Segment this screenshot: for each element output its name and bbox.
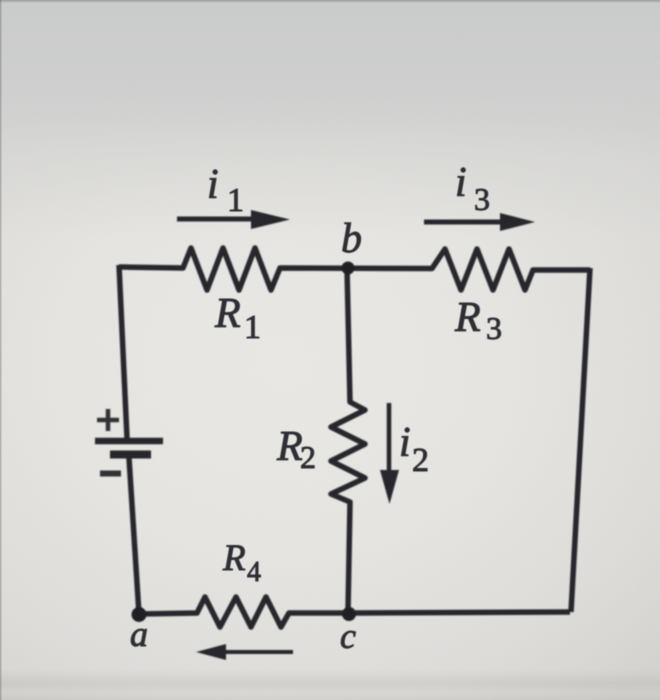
node c junction dot <box>342 607 356 621</box>
battery minus sign <box>100 471 121 477</box>
wire left lower (battery to node a) <box>129 458 139 614</box>
current arrow i2 (downward) <box>380 403 399 504</box>
current arrow i1 <box>177 210 290 229</box>
wire bottom with resistor R4 <box>139 597 570 627</box>
wire left upper (to battery) <box>119 265 127 438</box>
current arrow i3 <box>424 213 535 231</box>
node b junction dot <box>342 262 355 275</box>
wire middle with resistor R2 <box>331 268 365 611</box>
battery V (plates) <box>95 441 163 455</box>
node a junction dot <box>132 607 147 622</box>
wire right <box>571 268 590 612</box>
wire top with resistors R1 and R3 <box>119 248 590 290</box>
bottom current arrow (leftward, below R4) <box>196 644 293 660</box>
battery plus sign <box>97 409 119 431</box>
